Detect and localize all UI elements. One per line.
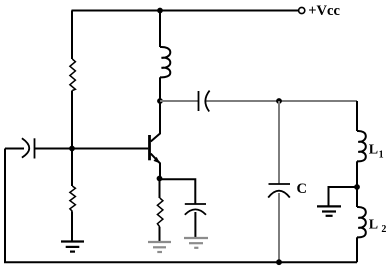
wire: emitter node down to RE xyxy=(159,179,161,199)
transistor Q1 (NPN) base bar xyxy=(148,135,151,160)
wire: emitter node to bypass capacitor xyxy=(160,179,196,204)
inductor L1 xyxy=(357,131,366,161)
resistor R1 (upper bias resistor) xyxy=(70,59,76,91)
wire: L1 to center tap node xyxy=(356,161,358,187)
svg-text:1: 1 xyxy=(379,149,384,160)
resistor R2 (lower bias resistor) xyxy=(70,186,76,211)
transistor Q1 emitter line xyxy=(151,154,160,179)
capacitor Cc (collector coupling, flat+curved plates) xyxy=(199,91,210,112)
svg-text:L: L xyxy=(369,142,378,157)
ground (gray, under RE) xyxy=(148,242,171,252)
wire: input lead left of coupling cap xyxy=(5,148,24,150)
wire: RFC to collector node xyxy=(159,77,161,101)
svg-text:L: L xyxy=(369,218,378,233)
wire: collector node to coupling cap (gray) xyxy=(160,100,198,102)
ground (black, under bias divider) xyxy=(61,242,84,252)
wire: left bias column top segment xyxy=(71,11,73,60)
svg-text:2: 2 xyxy=(381,224,386,235)
wire: L2 to bottom rail xyxy=(356,237,358,262)
capacitor CE (emitter bypass, flat+curved plates) xyxy=(185,204,206,215)
wire: bypass cap to ground xyxy=(194,212,196,238)
wire: input feedback loop (left edge and bottom rail) xyxy=(5,149,357,263)
resistor RE (emitter resistor) xyxy=(157,198,163,227)
node D (emitter node dot) xyxy=(157,176,163,182)
node B (top rail / RFC junction dot) xyxy=(157,8,163,14)
wire: from top rail down to RFC xyxy=(159,11,161,48)
transistor Q1 emitter arrow xyxy=(154,157,160,164)
capacitor C (tank capacitor, flat+curved plates) xyxy=(268,184,290,198)
inductor L2 xyxy=(357,207,366,237)
wire: base wire xyxy=(35,148,149,150)
capacitor Cin (input coupling, curved+flat plates) xyxy=(22,138,35,158)
node G (tank center tap dot) xyxy=(354,184,360,190)
ground (gray, under bypass cap) xyxy=(184,238,208,248)
wire: left column middle segment xyxy=(71,91,73,187)
svg-text:+Vcc: +Vcc xyxy=(308,3,340,19)
wire: tank node down to capacitor C (gray) xyxy=(278,101,280,184)
terminal: +Vcc open circle xyxy=(299,7,305,13)
inductor RFC (collector choke) xyxy=(160,47,170,77)
node C (collector node dot) xyxy=(157,98,163,104)
node E (tank top node dot) xyxy=(276,98,282,104)
wire: RE to ground xyxy=(159,227,161,242)
wire: top Vcc rail xyxy=(72,10,299,12)
wire: center tap to ground xyxy=(329,187,358,206)
node F (bottom rail junction dot) xyxy=(276,259,282,265)
wire: right vertical from tank top to L1 xyxy=(356,101,358,131)
wire: center tap node to L2 xyxy=(356,187,358,207)
wire: left column bottom segment to ground xyxy=(71,211,73,241)
ground (black, tank center tap) xyxy=(317,206,341,215)
node A (base node dot) xyxy=(69,146,75,152)
wire: capacitor C to bottom rail (gray) xyxy=(278,193,280,262)
svg-text:C: C xyxy=(297,181,307,197)
wire: collector vertical into transistor xyxy=(151,101,160,142)
wire: coupling cap to tank circuit (gray) xyxy=(206,100,357,102)
